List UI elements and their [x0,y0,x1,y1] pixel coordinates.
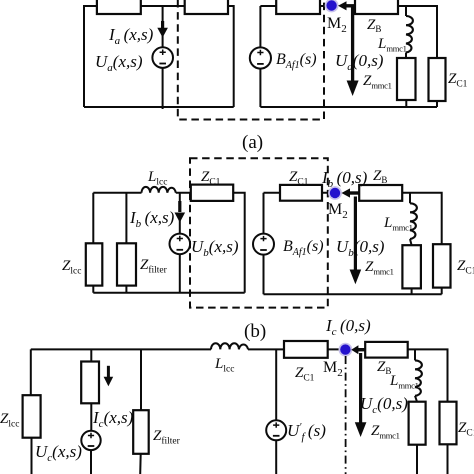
left wire (b) [92,193,94,293]
svg-text:Zlcc: Zlcc [0,411,19,430]
svg-text:M2: M2 [323,359,343,379]
inductor L_mmc1 coil (c) [415,360,422,395]
plus B_Af1 (b) [260,236,266,241]
svg-text:ZC1: ZC1 [201,169,221,188]
svg-text:Uc(x,s): Uc(x,s) [35,442,82,464]
svg-text:Zmmc1: Zmmc1 [371,423,400,441]
svg-text:Ic(x,s): Ic(x,s) [92,408,134,430]
resistor middle branch box (c) [81,362,99,404]
node M2 dot (a) [325,0,339,12]
wire U_f branch (c) [275,349,277,474]
plus U_c [88,433,94,438]
svg-text:M2: M2 [327,15,347,35]
resistor Z_C1 vertical (c) [440,402,457,445]
svg-text:Ub(x,s): Ub(x,s) [191,237,239,259]
svg-text:Ia (x,s): Ia (x,s) [108,25,154,47]
arrow I_c (beside box) [107,366,110,378]
resistor Z_C1 no2 (b) [280,185,322,201]
dash-dot line below M2 (c) [345,356,347,474]
inductor L_mmc1 branch wire (a) [405,6,407,107]
inductor L_mmc1 branch wire (b) [410,193,412,294]
svg-text:(a): (a) [242,132,263,153]
top rail (b) right [264,193,442,294]
resistor Z_mmc1 (b) [402,245,421,288]
svg-text:(b): (b) [244,321,266,342]
top rail (c) [31,349,448,474]
resistor Z_C1 horizontal (a) [276,0,320,14]
resistor Z_lcc (c) [23,395,41,438]
wire I_b branch (b) [179,193,181,293]
svg-text:Zlcc: Zlcc [62,258,81,277]
inductor L_mmc1 branch wire (c) [415,349,417,474]
svg-text:Zmmc1: Zmmc1 [363,73,392,91]
minus U_a [159,63,166,65]
arrow left into M2 (a) [338,1,347,10]
resistor Z_B (a) [355,0,398,14]
wire B_Af1 branch (b) [263,193,265,294]
svg-text:ZC1: ZC1 [295,365,315,384]
wire I_a branch [162,6,164,109]
plus U_f [273,422,279,427]
source B_Af1 circle [250,47,271,68]
source U_c circle (c) [81,431,100,450]
plus U_a [160,50,166,56]
resistor Z_C1 vertical (b) [433,244,451,287]
resistor Z_B (b) [359,185,402,201]
wire I_c branch (c) [90,349,92,474]
source B_Af1 circle (b) [253,234,274,255]
svg-text:Ub(0,s): Ub(0,s) [336,237,385,259]
svg-text:Ic (0,s): Ic (0,s) [325,316,371,338]
minus U_b [177,249,184,251]
svg-text:ZC1: ZC1 [448,71,468,90]
svg-text:Lmmc1: Lmmc1 [377,36,407,54]
bottom rail (b) left [93,292,244,294]
resistor Z_C1 no1 (b) [191,185,233,201]
source U_a circle [152,47,173,68]
big arrow U_b(0,s) [354,197,357,271]
resistor box A2 (top, cut) [185,0,228,14]
svg-text:Ua(0,s): Ua(0,s) [335,51,384,73]
resistor Z_C1 vertical (a) [429,58,446,101]
left wire Z_lcc branch (c) [30,349,33,474]
arrow I_b head [175,213,186,223]
minus B_Af1 [257,63,264,65]
inductor L_mmc1 coil (b) [410,203,417,239]
inductor L_mmc1 coil (a) [406,16,413,53]
svg-text:BAf1(s): BAf1(s) [276,51,317,71]
arrow left into M2 (b) [342,188,351,197]
svg-text:ZB: ZB [373,168,387,185]
resistor Z_B (c) [365,342,408,358]
resistor Z_filter (c) [133,410,149,454]
minus U_c [88,445,95,447]
plus U_b [177,236,183,241]
svg-text:M2: M2 [328,201,348,221]
svg-text:Uc(0,s): Uc(0,s) [360,394,408,416]
minus B_Af1 (b) [260,249,267,251]
svg-text:ZC1: ZC1 [289,169,309,188]
wire left+top+right+bottom loop (a) left [84,6,234,107]
resistor Z_filter (b) [117,243,136,285]
svg-text:ZC1: ZC1 [457,258,474,277]
wire B_Af1 branch [259,6,261,107]
svg-text:Lmmc1: Lmmc1 [389,373,419,391]
svg-text:Ib (x,s): Ib (x,s) [129,208,175,230]
inductor L_lcc coil (c) [211,343,248,349]
resistor box A1 (top, cut) [97,0,141,14]
svg-text:ZB: ZB [367,17,381,34]
svg-text:Zmmc1: Zmmc1 [365,259,394,277]
resistor Z_C1 horizontal (c) [284,341,328,358]
bottom rail (b) right [264,293,442,295]
big arrow U_a(0,s) [351,7,354,82]
wire Z_filter branch (c) [139,349,142,474]
node M2 dot (c) [339,343,353,357]
source U_f circle (c) [266,420,286,440]
source U_b circle [170,234,191,255]
arrow left into M2 (c) [351,345,358,354]
resistor Z_mmc1 (c) [409,402,426,445]
svg-text:Ua(x,s): Ua(x,s) [95,52,143,74]
svg-text:Zfilter: Zfilter [140,257,168,276]
node M2 dot (b) [328,186,342,200]
resistor Z_mmc1 (a) [397,58,416,100]
svg-text:Lmmc1: Lmmc1 [383,215,413,233]
svg-text:Llcc: Llcc [214,356,234,375]
svg-text:ZC1: ZC1 [458,420,474,439]
arrow I_a head [157,28,168,38]
top rail (b) left [93,193,244,293]
plus B_Af1 [257,50,263,55]
svg-text:U′f (s): U′f (s) [287,421,326,443]
top rail (a) right [260,6,437,107]
svg-text:Zfilter: Zfilter [153,428,181,447]
big arrow U_c(0,s) [359,353,362,423]
svg-text:Llcc: Llcc [147,169,167,188]
inductor L_lcc coil (b) [142,187,176,193]
svg-text:BAf1(s): BAf1(s) [283,238,324,258]
bottom rail (a) right [260,106,437,108]
minus U_f [273,435,280,437]
wire Z_filter branch (b) [125,193,127,293]
resistor Z_lcc (b) [86,243,103,285]
